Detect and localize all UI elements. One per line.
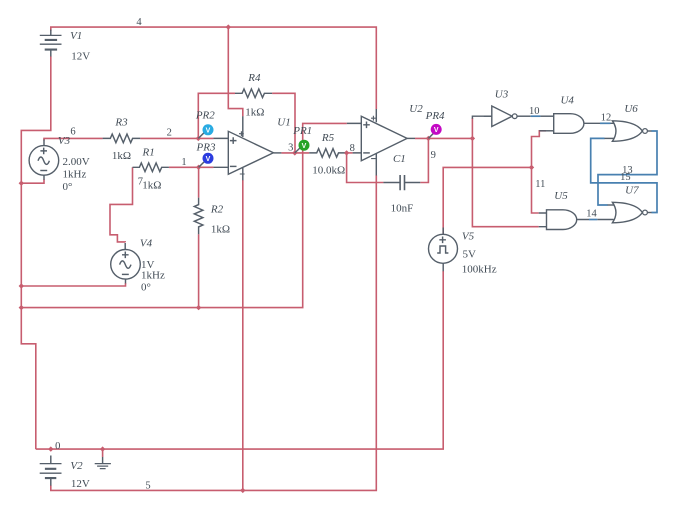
probe PR4 — [428, 124, 441, 139]
svg-text:V: V — [206, 128, 211, 135]
junction node0 V2 — [48, 446, 53, 451]
svg-text:15: 15 — [620, 172, 631, 183]
svg-text:V3: V3 — [58, 135, 71, 147]
svg-text:1kΩ: 1kΩ — [112, 150, 131, 162]
wire net1 R1 to node1 — [169, 166, 214, 168]
wire R2 bottom to ground line — [198, 234, 200, 307]
svg-text:8: 8 — [350, 143, 355, 154]
junction V4- rail — [19, 283, 24, 288]
resistor R3 — [103, 134, 141, 143]
square wave source V5 — [429, 228, 458, 272]
svg-text:V: V — [302, 143, 307, 150]
svg-text:4: 4 — [136, 17, 142, 28]
svg-text:12: 12 — [601, 112, 612, 123]
junction node11 — [529, 165, 534, 170]
AND gate U4 — [539, 114, 584, 134]
wire V5+ to node11 line — [443, 167, 531, 234]
svg-text:10.0kΩ: 10.0kΩ — [312, 165, 345, 177]
wire node9 up to U3 input — [472, 116, 491, 138]
svg-text:U7: U7 — [625, 184, 639, 196]
svg-text:PR2: PR2 — [195, 110, 215, 122]
wire node11 down to U5 upper input — [532, 167, 539, 213]
svg-text:0°: 0° — [141, 282, 151, 294]
wire ground line to U2 plus input — [21, 123, 347, 307]
junction node8 — [344, 150, 349, 155]
resistor R1 — [133, 163, 169, 172]
svg-text:U6: U6 — [624, 103, 638, 115]
wire node14 U5 to U7 — [577, 219, 614, 221]
svg-text:V2: V2 — [70, 460, 83, 472]
wire U1 negative power to net5 — [242, 180, 244, 490]
svg-text:5: 5 — [145, 481, 150, 492]
wire V4- to left rail — [21, 283, 125, 286]
capacitor C1 — [383, 175, 420, 190]
svg-text:R3: R3 — [114, 117, 128, 129]
svg-text:V: V — [434, 127, 439, 134]
svg-text:R1: R1 — [141, 147, 154, 159]
NOR gate U6 — [604, 121, 652, 142]
svg-text:12V: 12V — [71, 51, 90, 63]
wire V4 to R1 staircase net7 — [110, 167, 133, 242]
wire R4 right branch down to node3 — [272, 93, 295, 153]
svg-text:10: 10 — [529, 106, 540, 117]
wire net5 bottom rail V2- to U2 negative power — [51, 175, 377, 490]
resistor R4 — [235, 89, 272, 98]
svg-text:U3: U3 — [495, 88, 509, 100]
svg-text:5V: 5V — [463, 248, 477, 260]
svg-text:PR4: PR4 — [425, 110, 445, 122]
wire node10 blue mark — [531, 115, 541, 117]
svg-text:1kΩ: 1kΩ — [211, 224, 230, 236]
svg-text:100kHz: 100kHz — [462, 263, 497, 275]
svg-text:V5: V5 — [462, 231, 475, 243]
inverter U3 — [484, 106, 531, 127]
junction node2 — [196, 136, 201, 141]
ground symbol — [95, 449, 111, 469]
svg-text:V1: V1 — [70, 30, 82, 42]
svg-text:U4: U4 — [560, 95, 574, 107]
svg-text:PR3: PR3 — [196, 141, 216, 153]
wire node8 down to C1 left — [347, 153, 384, 183]
junction node3 — [292, 150, 297, 155]
junction node9 tap — [470, 136, 475, 141]
AC source V4 — [111, 243, 141, 283]
svg-text:1: 1 — [181, 157, 186, 168]
wire net6 V3+ to R3 — [44, 138, 103, 140]
svg-text:2: 2 — [167, 128, 172, 139]
NOR gate U7 — [607, 202, 652, 223]
junction net5 U1 power — [240, 488, 245, 493]
wire net13 U6 output feedback to U7 input — [598, 131, 657, 205]
junction R2 ground line — [196, 305, 201, 310]
probe PR1 — [295, 140, 310, 153]
svg-text:0: 0 — [55, 441, 60, 452]
wire node8 R5 to U2 minus — [345, 152, 353, 154]
svg-text:U1: U1 — [277, 117, 290, 129]
svg-text:V4: V4 — [140, 237, 153, 249]
junction ground line rail — [19, 305, 24, 310]
battery V1 — [40, 30, 62, 57]
wire node10 to U4 — [540, 115, 553, 117]
wire net2 R3 to node2 — [140, 137, 213, 139]
svg-text:R2: R2 — [210, 204, 224, 216]
svg-text:C1: C1 — [393, 153, 406, 165]
svg-text:12V: 12V — [71, 478, 90, 490]
svg-text:11: 11 — [535, 179, 545, 190]
wire node9 down to U5 lower input — [472, 138, 538, 226]
wire U1 output node3 to R5 — [281, 152, 309, 154]
op-amp U2 — [347, 109, 415, 176]
svg-text:U5: U5 — [554, 190, 568, 202]
battery V2 — [40, 456, 62, 486]
svg-text:0°: 0° — [63, 181, 73, 193]
wire V3- to left rail — [21, 179, 44, 183]
wire node12 U4 to U6 — [584, 122, 615, 124]
svg-text:1kHz: 1kHz — [141, 270, 165, 282]
wire node11 up step to U4 lower input — [532, 131, 547, 168]
svg-text:9: 9 — [431, 150, 436, 161]
wire V1- to ground left rail — [21, 56, 51, 449]
probe PR2 — [198, 124, 213, 138]
wire net4 top rail from V1+ to U2 power — [51, 27, 377, 109]
junction net4 — [226, 24, 231, 29]
svg-text:10nF: 10nF — [391, 202, 414, 214]
svg-text:2.00V: 2.00V — [63, 156, 90, 168]
svg-text:1kHz: 1kHz — [63, 169, 87, 181]
wire node1 down to R2 — [198, 167, 200, 197]
svg-text:R4: R4 — [247, 72, 261, 84]
junction node1 — [196, 165, 201, 170]
svg-text:6: 6 — [70, 126, 75, 137]
junction node9 C1 — [426, 136, 431, 141]
svg-text:14: 14 — [586, 209, 597, 220]
AC source V3 — [29, 140, 59, 180]
svg-text:1kΩ: 1kΩ — [245, 106, 264, 118]
wire C1 right up to node9 — [420, 138, 428, 182]
junction node0 ground — [100, 446, 105, 451]
junction V3- rail — [19, 181, 24, 186]
resistor R2 vertical — [194, 198, 203, 235]
svg-text:U2: U2 — [409, 103, 423, 115]
probe PR3 — [199, 153, 214, 168]
wire R4 left branch down to node2 — [198, 93, 235, 138]
wire net4 branch to U1 power — [228, 27, 243, 116]
svg-text:3: 3 — [288, 143, 293, 154]
svg-text:PR1: PR1 — [292, 125, 312, 137]
svg-text:R5: R5 — [321, 132, 335, 144]
resistor R5 — [309, 149, 344, 158]
AND gate U5 — [539, 210, 577, 230]
svg-text:V: V — [206, 156, 211, 163]
wire node0 ground line — [36, 271, 443, 449]
svg-text:1kΩ: 1kΩ — [142, 179, 161, 191]
op-amp U1 — [213, 116, 281, 180]
wire U2 output node9 — [415, 137, 472, 139]
wire net15 U7 output feedback to U6 input — [591, 138, 657, 212]
